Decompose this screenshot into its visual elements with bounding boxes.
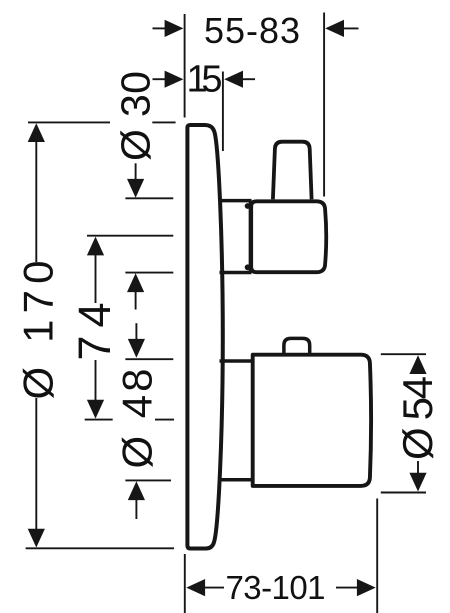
dimension 73-101 left extension line xyxy=(184,554,186,613)
top handle sleeve xyxy=(220,201,252,273)
thermostat knob xyxy=(253,355,371,486)
top handle lever xyxy=(273,142,312,200)
O30 lower arrow (points up) xyxy=(127,273,144,309)
dimension 55-83 right arrow xyxy=(325,20,358,37)
dimension 74 bottom reference line xyxy=(85,419,174,421)
dimension label O48 (rotated) xyxy=(114,369,161,469)
dimension 170 top arrow xyxy=(28,123,45,262)
O48 top reference line xyxy=(125,358,173,360)
dimension label 55-83 xyxy=(204,10,300,51)
dimension 55-83 left arrow xyxy=(153,20,184,37)
dimension 170 top extension line xyxy=(28,121,176,123)
top handle base cylinder xyxy=(251,201,326,272)
dimension 73-101 left arrow xyxy=(186,579,224,596)
svg-text:15: 15 xyxy=(187,58,223,100)
dimension 170 bottom arrow xyxy=(28,398,45,548)
dimension 170 bottom extension line xyxy=(26,547,174,549)
dimension 73-101 right extension line xyxy=(376,499,378,613)
O30 upper arrow (points down) xyxy=(127,163,144,197)
O48 bottom reference line xyxy=(125,479,171,481)
svg-text:Ø 170: Ø 170 xyxy=(15,261,62,400)
dimension 73-101 right arrow xyxy=(336,579,376,596)
svg-text:73-101: 73-101 xyxy=(226,569,326,606)
O54 bottom arrow (points down) xyxy=(409,461,426,492)
dimension 55-83 extension line left xyxy=(184,14,186,118)
sleeve joint dot bottom xyxy=(245,264,251,270)
dimension 15 left arrow xyxy=(153,71,184,88)
svg-text:Ø 30: Ø 30 xyxy=(113,71,159,161)
O54 bottom extension line xyxy=(381,492,426,494)
O30 bottom reference line xyxy=(125,272,173,274)
dimension 74 top arrow (points up) xyxy=(87,237,104,303)
dimension label O30 (rotated) xyxy=(113,71,159,161)
O30 top reference line xyxy=(125,197,173,199)
dimension label 74 (rotated) xyxy=(69,303,120,361)
svg-text:Ø 48: Ø 48 xyxy=(114,369,161,469)
dimension label 73-101 xyxy=(226,569,326,606)
knob top nub xyxy=(284,338,310,354)
escutcheon plate outline xyxy=(187,125,222,549)
dimension 74 top reference line xyxy=(87,235,173,237)
O48 lower arrow (points up) xyxy=(128,481,145,519)
dimension 74 bottom arrow (points down) xyxy=(87,360,104,419)
svg-text:55-83: 55-83 xyxy=(204,10,300,51)
dimension 55-83 extension line right xyxy=(323,13,325,197)
dimension 15 right arrow xyxy=(224,71,255,88)
O54 top arrow (points up) xyxy=(409,355,426,374)
O48 upper arrow (points down) xyxy=(128,323,145,358)
dimension label 15 xyxy=(187,58,223,100)
svg-text:Ø 54: Ø 54 xyxy=(394,376,441,460)
dimension label O170 (rotated) xyxy=(15,261,62,400)
O54 top extension line xyxy=(381,353,426,355)
sleeve joint dot top xyxy=(245,203,251,209)
dimension 15 right extension line xyxy=(222,72,224,152)
dimension label O54 (rotated) xyxy=(394,376,441,460)
lower sleeve xyxy=(220,361,254,480)
